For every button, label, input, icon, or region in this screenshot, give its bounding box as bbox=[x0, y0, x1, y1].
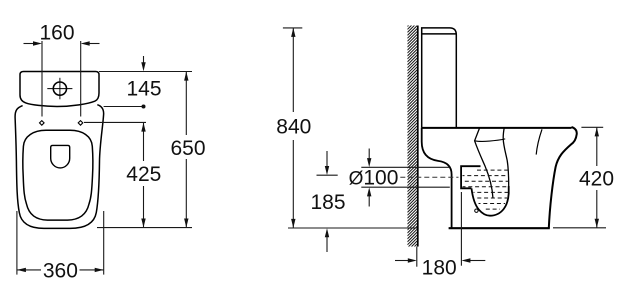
svg-text:360: 360 bbox=[43, 259, 78, 282]
svg-text:650: 650 bbox=[170, 137, 205, 160]
rim lip + outer bowl right profile bbox=[549, 127, 577, 228]
body / pedestal front outline bbox=[15, 105, 104, 229]
seat outline bbox=[23, 130, 93, 220]
dimension Ø100: extension + tail lines bbox=[361, 149, 450, 207]
sump U bbox=[472, 186, 509, 216]
small drain circle bbox=[475, 209, 478, 212]
wall hatch bbox=[407, 16, 417, 256]
outlet centerline bbox=[400, 176, 458, 178]
dimension 180: extension + tail lines bbox=[395, 192, 485, 267]
svg-text:160: 160 bbox=[39, 21, 74, 44]
dimension Ø100: bottom arrowhead bbox=[367, 187, 371, 196]
svg-text:185: 185 bbox=[310, 191, 345, 214]
pan back outline bbox=[422, 128, 452, 228]
inner flush shape bbox=[51, 145, 70, 168]
dimension 160: extension + tail lines bbox=[24, 41, 100, 117]
dimension 420: top arrowhead bbox=[595, 127, 599, 136]
dimension 145: top arrowhead bbox=[141, 62, 145, 71]
rim top line bbox=[422, 127, 572, 129]
svg-text:425: 425 bbox=[126, 163, 161, 186]
dimension 650: top arrowhead bbox=[184, 72, 188, 81]
inner weir line bbox=[475, 139, 506, 141]
dimension 425: bottom arrowhead bbox=[141, 219, 145, 228]
dimension 360: left arrowhead bbox=[17, 268, 26, 272]
dimension 425: top arrowhead bbox=[141, 123, 145, 132]
svg-text:420: 420 bbox=[579, 168, 614, 191]
dimension 185: extension + tail lines bbox=[317, 151, 338, 252]
trap step outline bbox=[461, 166, 480, 188]
water dashes bbox=[463, 170, 509, 209]
dimension Ø100: top arrowhead bbox=[367, 158, 371, 167]
dimension 160: left arrowhead bbox=[33, 41, 42, 45]
dimension 185: bottom arrowhead bbox=[325, 228, 329, 237]
funnel curve B bbox=[503, 128, 509, 186]
wall face line bbox=[417, 26, 419, 247]
tank front outline bbox=[20, 72, 99, 107]
funnel curve A bbox=[475, 128, 493, 198]
dimension 425: extension + tail lines bbox=[84, 122, 146, 227]
contour slant near rim right bbox=[536, 129, 542, 154]
dimension 420: bottom arrowhead bbox=[595, 219, 599, 228]
dimension 840: extension + tail lines bbox=[283, 28, 417, 228]
tank side outline bbox=[422, 28, 457, 128]
dimension 360: right arrowhead bbox=[95, 268, 104, 272]
dimension 840: bottom arrowhead bbox=[291, 219, 295, 228]
pedestal bottom line bbox=[449, 227, 550, 229]
seat bolt diamonds bbox=[40, 121, 83, 126]
lid hole crosshair bbox=[47, 78, 72, 100]
dimension 185: top arrowhead bbox=[325, 166, 329, 175]
dimension 180: left arrowhead bbox=[408, 258, 417, 262]
dimension 650: bottom arrowhead bbox=[184, 219, 188, 228]
dimension 145: extension + tail lines bbox=[99, 56, 192, 107]
dimension 650: extension + tail lines bbox=[97, 72, 192, 228]
svg-text:180: 180 bbox=[422, 257, 457, 280]
dimension 420: extension + tail lines bbox=[553, 127, 606, 228]
svg-text:145: 145 bbox=[126, 78, 161, 101]
dimension 160: right arrowhead bbox=[81, 41, 90, 45]
dimension 840: top arrowhead bbox=[291, 28, 295, 37]
dimension 180: right arrowhead bbox=[461, 258, 470, 262]
svg-text:Ø100: Ø100 bbox=[349, 167, 399, 190]
dimension 145: reference dot bbox=[142, 105, 146, 109]
svg-text:840: 840 bbox=[276, 116, 311, 139]
dimension 360: extension + tail lines bbox=[17, 211, 104, 275]
tank lid line bbox=[422, 33, 456, 35]
